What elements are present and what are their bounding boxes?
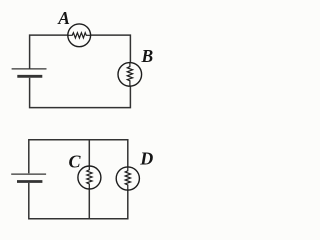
svg-text:B: B [141,46,154,66]
svg-text:A: A [57,8,70,28]
svg-text:C: C [69,152,82,172]
svg-text:D: D [139,149,153,169]
